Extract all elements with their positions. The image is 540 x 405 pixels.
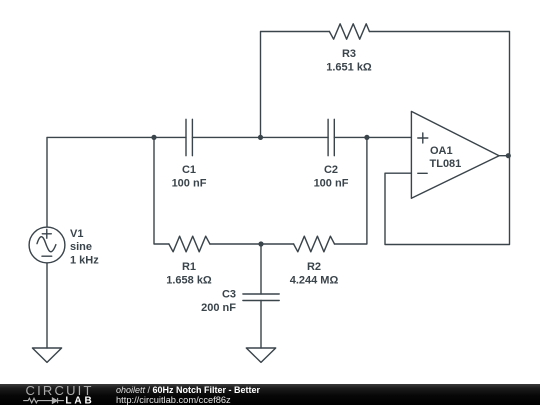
wire feedback from output node to op-amp - input xyxy=(385,156,510,245)
svg-text:ohoilett / 60Hz Notch Filter -: ohoilett / 60Hz Notch Filter - Better xyxy=(116,385,261,395)
wire node A down to R1 left xyxy=(154,137,169,244)
wire node D down to C3 top plate xyxy=(260,244,262,294)
CircuitLab logo wire glyph with resistor and diode xyxy=(23,398,64,403)
wire op-amp output stub xyxy=(499,155,509,157)
node B junction dot xyxy=(258,135,263,140)
voltage source V1 xyxy=(29,227,65,263)
svg-text:100 nF: 100 nF xyxy=(172,177,207,189)
svg-text:TL081: TL081 xyxy=(430,158,462,170)
op-amp OA1 xyxy=(411,111,499,198)
resistor R3 xyxy=(329,24,369,39)
svg-text:R1: R1 xyxy=(182,261,196,273)
wire C2 right plate to node C xyxy=(334,136,367,138)
svg-text:100 nF: 100 nF xyxy=(314,177,349,189)
wire R1 right to node D xyxy=(210,243,261,245)
wire C3 bottom plate to ground xyxy=(260,301,262,349)
svg-text:V1: V1 xyxy=(70,228,83,240)
wire node A to C1 left plate xyxy=(154,136,186,138)
svg-text:R3: R3 xyxy=(342,48,356,60)
V1 sine mark xyxy=(37,237,56,252)
svg-text:200 nF: 200 nF xyxy=(201,302,236,314)
node C junction dot xyxy=(364,135,369,140)
op-amp plus pin mark xyxy=(418,133,428,143)
svg-text:C1: C1 xyxy=(182,164,196,176)
svg-text:OA1: OA1 xyxy=(430,145,453,157)
wire R2 right up to node C xyxy=(335,137,367,244)
node A junction dot xyxy=(151,135,156,140)
svg-text:C2: C2 xyxy=(324,164,338,176)
wire from V1 top to node A xyxy=(47,137,154,227)
resistor R1 xyxy=(169,236,210,252)
wire node D to R2 left xyxy=(261,243,294,245)
footer bar xyxy=(0,384,540,405)
node D junction dot xyxy=(258,241,263,246)
wire node B up to R3 left xyxy=(261,32,330,138)
op-amp minus pin mark xyxy=(418,172,427,174)
wire R3 right to output node xyxy=(369,32,509,156)
ground below C3 xyxy=(246,348,275,362)
svg-text:sine: sine xyxy=(70,241,92,253)
V1 minus mark xyxy=(42,255,52,257)
svg-text:1.658 kΩ: 1.658 kΩ xyxy=(166,275,212,287)
svg-text:R2: R2 xyxy=(307,261,321,273)
svg-text:1 kHz: 1 kHz xyxy=(70,254,99,266)
capacitor C3 xyxy=(243,294,279,301)
svg-text:LAB: LAB xyxy=(65,396,94,405)
wire node C to op-amp + input xyxy=(367,136,412,138)
svg-text:http://circuitlab.com/ccef86z: http://circuitlab.com/ccef86z xyxy=(116,395,231,405)
svg-text:1.651 kΩ: 1.651 kΩ xyxy=(326,61,372,73)
capacitor C1 xyxy=(186,119,192,155)
wire node B to C2 left plate xyxy=(261,136,329,138)
output node junction dot xyxy=(506,153,511,158)
ground below V1 xyxy=(32,348,61,362)
svg-text:C3: C3 xyxy=(222,289,236,301)
wire C1 right plate to node B xyxy=(192,136,260,138)
resistor R2 xyxy=(294,236,335,252)
capacitor C2 xyxy=(328,119,334,155)
wire V1 bottom to ground xyxy=(46,263,48,348)
svg-text:4.244 MΩ: 4.244 MΩ xyxy=(290,275,339,287)
V1 plus mark xyxy=(42,229,51,238)
